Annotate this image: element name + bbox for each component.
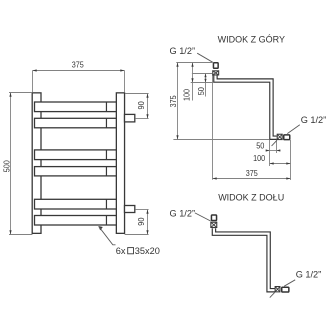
svg-text:35x20: 35x20 xyxy=(135,246,160,256)
svg-text:G 1/2”: G 1/2” xyxy=(296,270,322,280)
svg-text:500: 500 xyxy=(2,160,12,172)
svg-text:G 1/2”: G 1/2” xyxy=(301,115,327,125)
svg-text:WIDOK Z DOŁU: WIDOK Z DOŁU xyxy=(218,193,284,203)
svg-text:90: 90 xyxy=(136,217,146,225)
svg-text:90: 90 xyxy=(136,101,146,109)
svg-text:50: 50 xyxy=(196,87,206,95)
svg-text:50: 50 xyxy=(256,140,264,150)
svg-text:G 1/2”: G 1/2” xyxy=(170,46,196,56)
svg-text:100: 100 xyxy=(253,153,265,163)
svg-text:375: 375 xyxy=(168,95,178,107)
svg-text:WIDOK Z GÓRY: WIDOK Z GÓRY xyxy=(218,35,285,45)
svg-text:375: 375 xyxy=(72,60,84,70)
svg-text:375: 375 xyxy=(246,168,258,178)
svg-text:100: 100 xyxy=(182,89,192,101)
svg-text:6x: 6x xyxy=(116,246,126,256)
svg-text:G 1/2”: G 1/2” xyxy=(170,209,196,219)
